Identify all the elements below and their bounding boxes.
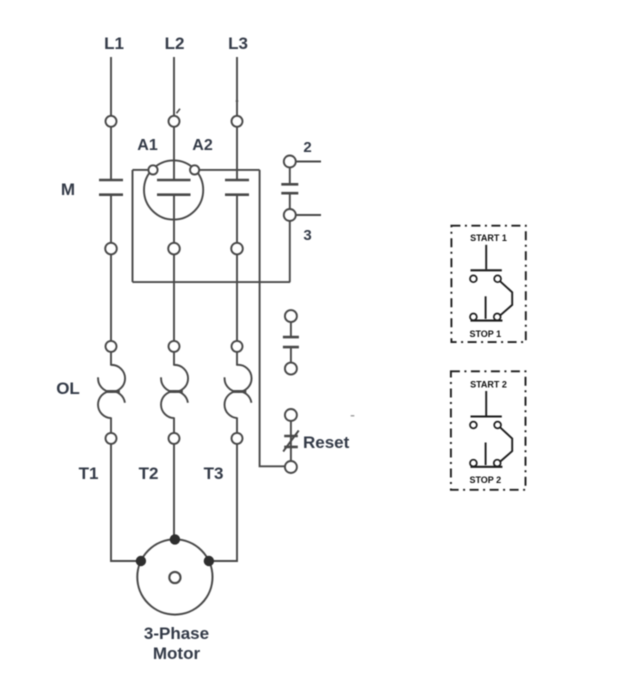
- auxiliary contact 2 terminal circle: [284, 156, 296, 168]
- contactor M pole 3 contact: [225, 180, 249, 195]
- enclosure box top-right segment: [199, 169, 259, 171]
- junction dot artifact on L3: [236, 100, 239, 103]
- terminal circle pole3: [231, 243, 243, 255]
- wire holding contact upper: [290, 322, 292, 336]
- push button station 2: [451, 371, 526, 490]
- OL heater 1 upper hook: [98, 365, 125, 392]
- svg-text:A2: A2: [192, 137, 213, 154]
- OL heater 2 bottom circle: [169, 433, 180, 444]
- enclosure box top-left segment: [133, 169, 149, 171]
- wire contact 3 down to box bottom: [289, 221, 291, 282]
- wire pole1 below contact: [110, 196, 112, 243]
- stop 2 left terminal: [470, 460, 477, 467]
- start 1 left terminal: [470, 275, 477, 282]
- coil terminal A1: [148, 165, 157, 174]
- node A2 label: [192, 137, 213, 154]
- svg-text:STOP 1: STOP 1: [469, 329, 501, 339]
- wire L3 top: [236, 57, 238, 116]
- stop 2 actuator stem: [485, 443, 487, 466]
- svg-text:L1: L1: [104, 34, 124, 53]
- wire L3 to contact: [236, 127, 238, 179]
- svg-text:3-Phase: 3-Phase: [144, 624, 209, 643]
- OL heater 1 bottom circle: [106, 433, 117, 444]
- stop 2 contact bar: [471, 466, 503, 468]
- linkage start1-stop1: [500, 281, 512, 315]
- svg-text:Reset: Reset: [303, 433, 350, 452]
- label START 2: [470, 379, 507, 389]
- wire OL3 upper: [236, 352, 238, 366]
- coil circle M: [144, 160, 203, 219]
- svg-text:START 2: START 2: [470, 379, 507, 389]
- station 2 dash-dot border: [451, 371, 526, 490]
- svg-text:STOP 2: STOP 2: [469, 475, 501, 485]
- contactor M pole 2 contact: [157, 180, 191, 195]
- node 2 label: [303, 139, 311, 156]
- label Motor: [153, 644, 201, 663]
- OL heater 1 top circle: [106, 341, 117, 352]
- holding contact top terminal circle: [285, 310, 297, 322]
- label 3-Phase: [144, 624, 209, 643]
- holding contact bars: [283, 337, 299, 347]
- svg-text:M: M: [61, 180, 75, 199]
- terminal circle L2 line: [169, 116, 180, 127]
- svg-text:T2: T2: [139, 464, 159, 483]
- node 3 label: [303, 227, 311, 244]
- coil terminal A2: [190, 165, 199, 174]
- svg-text:A1: A1: [137, 137, 158, 154]
- stray tick on L2 terminal: [177, 109, 181, 113]
- wire pole2 to OL: [173, 254, 175, 340]
- terminal circle L1 line: [106, 116, 117, 127]
- wire reset stem: [290, 421, 292, 461]
- wire pole3 to OL: [236, 254, 238, 340]
- node L1 label: [104, 34, 124, 53]
- enclosure box right edge and wire down to reset: [260, 170, 285, 466]
- wire aux contact lower: [289, 194, 291, 209]
- wire T2 to motor: [173, 444, 175, 535]
- wire node 2: [296, 161, 321, 163]
- svg-text:L2: L2: [165, 34, 185, 53]
- node T1 label: [79, 464, 99, 483]
- wire holding contact lower: [290, 348, 292, 362]
- svg-text:OL: OL: [56, 379, 80, 398]
- svg-text:START 1: START 1: [470, 233, 507, 243]
- start 1 contact bar: [471, 269, 502, 271]
- wire node 3: [296, 214, 321, 216]
- contactor M label: [61, 180, 75, 199]
- stop 1 right terminal: [494, 314, 501, 321]
- label STOP 2: [469, 475, 501, 485]
- station 1 dash-dot border: [451, 226, 525, 342]
- motor terminal dot right: [204, 556, 214, 566]
- start 2 right terminal: [494, 422, 501, 429]
- wire L2 to contact: [173, 127, 175, 179]
- svg-text:2: 2: [303, 139, 311, 156]
- OL heater 1 lower hook: [98, 391, 125, 418]
- label Reset: [303, 433, 350, 452]
- start 1 actuator stem: [485, 245, 487, 269]
- wire T1 to motor: [111, 444, 141, 561]
- aux contact 2-3 bars: [281, 184, 298, 193]
- OL heater 2 upper hook: [161, 365, 188, 392]
- OL heater 2 lower hook: [161, 391, 188, 418]
- enclosure box left edge: [132, 170, 134, 282]
- terminal circle L3 line: [232, 116, 243, 127]
- reset top terminal circle: [285, 409, 297, 421]
- motor terminal dot left: [136, 556, 146, 566]
- start 2 contact bar: [471, 415, 502, 417]
- svg-text:Motor: Motor: [153, 644, 201, 663]
- stop 2 right terminal: [494, 460, 501, 467]
- OL heater 2 middle tick: [169, 390, 183, 393]
- wire OL2 lower: [173, 417, 175, 433]
- wire OL3 lower: [236, 417, 238, 433]
- node A1 label: [137, 137, 158, 154]
- auxiliary contact 3 terminal circle: [284, 209, 296, 221]
- stray mark: [351, 415, 355, 417]
- OL heater 1 middle tick: [106, 390, 120, 393]
- linkage start2-stop2: [500, 428, 512, 462]
- wire L2 top: [173, 57, 175, 116]
- wire aux contact upper: [289, 168, 291, 184]
- label STOP 1: [469, 329, 501, 339]
- wire OL1 upper: [110, 352, 112, 366]
- OL heater 3 middle tick: [232, 390, 246, 393]
- svg-text:3: 3: [303, 227, 311, 244]
- motor circle: [137, 539, 212, 614]
- wire L1 to contact: [110, 127, 112, 179]
- OL heater 3 lower hook: [225, 391, 252, 418]
- motor shaft circle: [169, 572, 180, 583]
- holding contact bottom terminal circle: [285, 363, 297, 375]
- node L2 label: [165, 34, 185, 53]
- start 1 right terminal: [494, 275, 501, 282]
- stop 1 contact bar: [471, 320, 503, 322]
- overload OL label: [56, 379, 80, 398]
- stop 1 left terminal: [470, 314, 477, 321]
- OL heater 3 upper hook: [225, 365, 252, 392]
- motor terminal dot top: [170, 534, 180, 544]
- reset actuator slash: [283, 431, 299, 452]
- wire pole2 below contact: [173, 196, 175, 243]
- svg-text:L3: L3: [228, 34, 248, 53]
- wire OL2 upper: [173, 352, 175, 366]
- start 2 left terminal: [470, 422, 477, 429]
- OL heater 2 top circle: [169, 341, 180, 352]
- start 2 actuator stem: [485, 391, 487, 416]
- node T2 label: [139, 464, 159, 483]
- node L3 label: [228, 34, 248, 53]
- label START 1: [470, 233, 507, 243]
- reset bottom terminal circle: [285, 461, 297, 473]
- wire T3 to motor: [209, 444, 237, 561]
- svg-text:T3: T3: [204, 464, 224, 483]
- terminal circle pole1: [105, 243, 117, 255]
- svg-text:T1: T1: [79, 464, 99, 483]
- terminal circle pole2: [168, 243, 180, 255]
- OL heater 3 bottom circle: [232, 433, 243, 444]
- push button station 1: [451, 226, 525, 342]
- wire L1 top: [110, 57, 112, 116]
- contactor M pole 1 contact: [99, 180, 123, 195]
- wire pole3 below contact: [236, 196, 238, 243]
- reset contact bars: [284, 436, 298, 447]
- stop 1 actuator stem: [485, 296, 487, 319]
- enclosure box bottom edge: [133, 281, 291, 283]
- wire pole1 to OL: [110, 254, 112, 340]
- wire OL1 lower: [110, 417, 112, 433]
- OL heater 3 top circle: [232, 341, 243, 352]
- node T3 label: [204, 464, 224, 483]
